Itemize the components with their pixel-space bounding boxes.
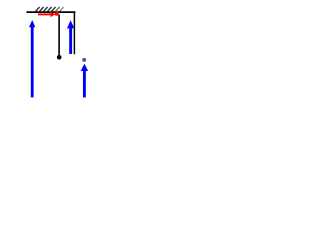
middle string [58, 15, 60, 56]
ceiling line [27, 11, 76, 13]
blue arrow 3 shaft (lower right arrow) [83, 70, 86, 97]
blue arrow 3 head [81, 64, 88, 71]
blue arrow 2 shaft (upper right arrow) [69, 28, 72, 54]
ball on middle string [57, 55, 62, 60]
navy ball [82, 58, 86, 62]
red arrow shaft [38, 13, 51, 15]
background [0, 0, 120, 108]
red arrowhead [51, 12, 56, 18]
red pivot dot [55, 12, 59, 16]
right string [73, 13, 75, 55]
blue arrow 2 head [67, 20, 74, 28]
blue arrow 1 head [29, 20, 35, 27]
blue arrow 1 shaft (long left arrow) [31, 27, 34, 98]
ceiling hatching [36, 7, 64, 11]
